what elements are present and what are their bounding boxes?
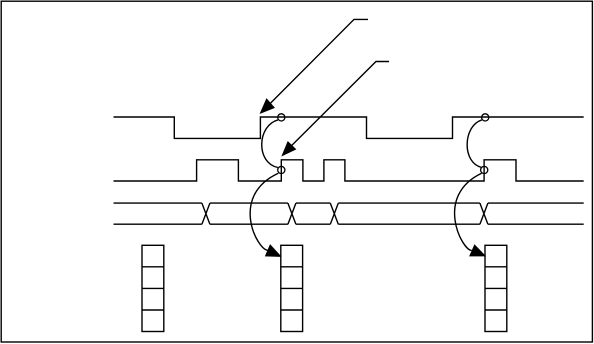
data bus with transition crossings: [114, 203, 584, 224]
waveform signal 1 (top strobe): [114, 117, 584, 138]
register stack 1 (left FIFO): [142, 245, 164, 331]
curved capture arrow B (signal2 edge to middle FIFO, crosses bus): [250, 173, 281, 256]
bus X crossing 3: [330, 203, 338, 224]
bus X crossing 4: [480, 203, 488, 224]
leader arrow 1 (callout to signal-1 rising edge): [260, 19, 368, 113]
waveform signal 2 (pulse train): [114, 160, 584, 181]
bus bottom line segments: [114, 223, 584, 225]
register stack 3 (right FIFO): [485, 245, 507, 331]
node circle 3 (sample point on signal 1, right): [482, 114, 489, 121]
node circle 2 (sample point on signal 2, left): [278, 166, 285, 173]
register stack 2 (middle FIFO): [281, 245, 303, 331]
curved link arc C (signal1 edge to signal2 edge, right): [467, 120, 482, 168]
bus top line segments: [114, 202, 584, 204]
curved capture arrow D (signal2 edge to right FIFO, crosses bus): [455, 173, 486, 256]
bus X crossing 1: [202, 203, 210, 224]
node circle 4 (sample point on signal 2, right): [481, 166, 488, 173]
curved link arc A (signal1 edge to signal2 edge, left): [262, 120, 278, 168]
bus X crossing 2: [288, 203, 296, 224]
leader arrow 2 (callout to signal-2 rising edge): [282, 62, 389, 156]
node circle 1 (sample point on signal 1, left): [278, 114, 285, 121]
